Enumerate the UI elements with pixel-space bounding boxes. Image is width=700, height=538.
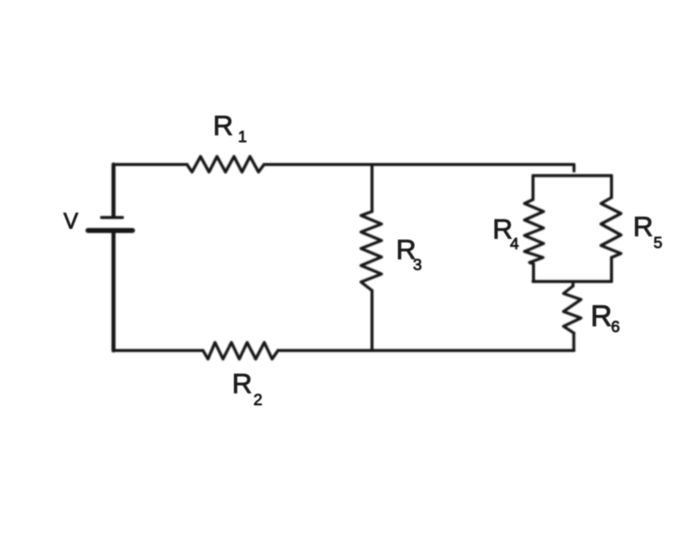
svg-text:4: 4 — [510, 236, 519, 253]
svg-text:1: 1 — [238, 129, 247, 146]
wire: R6 down to bottom wire — [572, 333, 575, 351]
svg-text:6: 6 — [611, 319, 620, 336]
wire: box left vertical below R4 — [532, 264, 535, 282]
wire: left vertical below battery — [112, 233, 116, 351]
resistor R5 — [601, 198, 621, 258]
svg-text:R: R — [633, 211, 653, 242]
svg-text:3: 3 — [413, 257, 422, 274]
wire: stub from box bottom to R6 — [572, 282, 575, 287]
wire: R3 branch from top wire down — [371, 165, 374, 212]
wire: box left vertical above R4 — [532, 176, 535, 200]
wire: box right vertical below R5 — [610, 258, 613, 282]
wire: top-right stub down toward parallel box — [573, 165, 576, 172]
wire: bottom horizontal, R2 to R6 node — [278, 349, 574, 352]
wire: bottom horizontal, battery node to R2 — [114, 349, 204, 352]
svg-text:V: V — [64, 209, 79, 234]
resistor R2 — [203, 343, 278, 360]
battery V bottom plate — [88, 228, 133, 233]
resistor R6 — [564, 286, 582, 333]
battery V top plate — [102, 216, 123, 219]
svg-text:R: R — [213, 110, 233, 141]
wire: parallel box top — [533, 174, 612, 177]
wire: box right vertical above R5 — [610, 176, 613, 198]
wire: top horizontal, battery node to R1 — [114, 163, 188, 166]
svg-text:R: R — [591, 300, 613, 333]
resistor R4 — [525, 200, 544, 265]
svg-text:2: 2 — [254, 392, 263, 409]
wire: left vertical above battery — [112, 165, 116, 218]
resistor R3 — [361, 212, 382, 291]
svg-text:R: R — [232, 368, 252, 399]
wire: top horizontal, R1 to top-right stub — [264, 163, 574, 166]
resistor R1 — [187, 157, 264, 173]
wire: R3 branch down to bottom wire — [371, 291, 374, 351]
svg-text:5: 5 — [654, 235, 663, 252]
wire: parallel box bottom — [533, 280, 612, 283]
